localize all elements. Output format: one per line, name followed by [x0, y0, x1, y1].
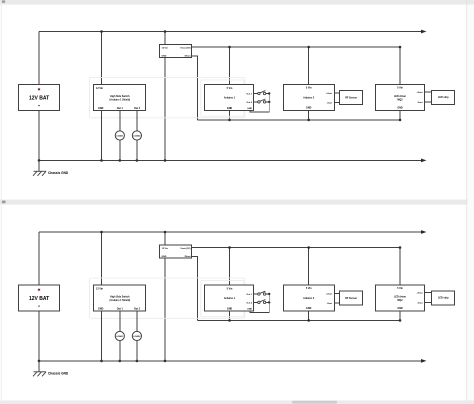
module U2 DC-DC converter: [160, 245, 192, 258]
wire switch1 left stub: [254, 293, 258, 295]
svg-text:12V BAT: 12V BAT: [29, 296, 49, 302]
svg-text:5 Vin: 5 Vin: [227, 288, 233, 291]
module U6 LED driver: [376, 285, 425, 311]
svg-text:+Vout: +Vout: [326, 292, 332, 295]
svg-text:Out 1: Out 1: [246, 92, 252, 95]
svg-text:MQ2: MQ2: [397, 299, 403, 302]
node GND sub-bus end: [399, 119, 402, 122]
svg-text:5 Vin: 5 Vin: [397, 87, 403, 90]
wire switch2 right stub: [266, 101, 269, 103]
node HSS-GND junction: [100, 159, 103, 162]
wire 12V top bus: [39, 31, 422, 33]
wire LEDdriver GND stub: [399, 311, 401, 320]
svg-text:RF Sensor: RF Sensor: [345, 96, 357, 99]
wire Arduino2 GND stub: [308, 312, 310, 321]
wire Arduino2 GND stub: [308, 111, 310, 120]
node battery-GND junction: [38, 360, 41, 363]
module U6 LED driver: [376, 85, 425, 111]
top toolbar icon: [2, 0, 5, 2]
module U7 LED strip: [432, 91, 455, 105]
wire ground stub: [38, 160, 40, 171]
svg-text:LED strip: LED strip: [438, 297, 449, 300]
wire switch2 right stub: [266, 301, 269, 303]
module U4 Arduino 2: [284, 285, 335, 311]
node switch1 out: [268, 92, 270, 94]
wire HSS Out2 upper: [136, 311, 138, 332]
svg-text:GND: GND: [397, 307, 403, 310]
frame Arduino1 group: [201, 80, 244, 116]
svg-text:-Vout: -Vout: [327, 101, 333, 104]
svg-text:12 Vin: 12 Vin: [162, 48, 169, 50]
module U3 Arduino 1: [205, 285, 254, 311]
wire Arduino1 5Vin: [229, 248, 231, 286]
wire LEDdriver GND stub: [399, 111, 401, 120]
middle divider icon: [2, 201, 6, 204]
wire battery negative: [38, 111, 40, 160]
svg-text:GND: GND: [306, 307, 312, 310]
node DCDC-GND junction: [164, 360, 167, 363]
node LOAD1-GND junction: [119, 159, 122, 162]
svg-text:Out 1: Out 1: [117, 308, 124, 311]
wire 5V bus: [192, 247, 400, 249]
svg-text:-Vout: -Vout: [417, 101, 423, 104]
wire battery positive: [38, 32, 40, 85]
wire Arduino2 5Vin: [308, 248, 310, 285]
node GND-Arduino1 junction: [228, 319, 231, 322]
wire HSS Out2 upper: [136, 110, 138, 130]
svg-text:5 Vin: 5 Vin: [306, 87, 312, 90]
wire chassis GND bus: [39, 159, 422, 161]
wire HSS Out1 upper: [119, 110, 121, 130]
arrow 12V bus end: [421, 230, 427, 234]
wire Arduino2 5Vin: [308, 47, 310, 84]
left page border: [0, 0, 3, 404]
svg-text:LED strip: LED strip: [438, 96, 449, 99]
node GND sub-bus end: [399, 319, 402, 322]
svg-text:GND: GND: [162, 56, 167, 58]
svg-text:(Arduino 1 Shield): (Arduino 1 Shield): [110, 299, 131, 302]
middle divider strip: [0, 200, 474, 205]
svg-text:Out 1: Out 1: [246, 293, 252, 296]
arrow GND bus end: [421, 159, 427, 163]
wire 5Vout elbow: [192, 56, 198, 120]
svg-text:Out 1: Out 1: [117, 107, 124, 110]
load LOAD1: [115, 331, 124, 340]
wire LOAD1 lower: [119, 341, 121, 361]
wire Arduino1 5Vin: [229, 47, 231, 85]
node 12V-HSS junction: [100, 30, 103, 33]
frame HSS group: [90, 278, 245, 318]
node 5V-Arduino2 junction: [307, 46, 310, 49]
ground chassis symbol: [33, 171, 46, 176]
arrow 12V bus end: [421, 30, 427, 34]
bottom scrollbar thumb: [292, 401, 337, 404]
node GND-Arduino2 junction: [307, 319, 310, 322]
node 5V-Arduino1 junction: [228, 46, 231, 49]
switch S1: [258, 91, 266, 95]
svg-text:Out 2: Out 2: [134, 107, 141, 110]
svg-text:Arduino 1: Arduino 1: [224, 97, 236, 100]
wire switch1 right stub: [266, 93, 269, 95]
svg-text:5 Vin: 5 Vin: [306, 287, 312, 290]
wire 12V top bus: [39, 231, 422, 233]
module U4 Arduino 2: [284, 85, 335, 111]
wire LOAD1 lower: [119, 140, 121, 160]
svg-text:Out 2: Out 2: [134, 308, 141, 311]
svg-text:Out 2: Out 2: [246, 301, 252, 304]
switch S2: [258, 300, 266, 304]
node LOAD2-GND junction: [136, 360, 139, 363]
node switch2 out: [268, 101, 270, 103]
node 12V-HSS junction: [100, 231, 103, 234]
svg-text:GND: GND: [306, 107, 312, 110]
node switch2 out: [268, 301, 270, 303]
svg-text:GND: GND: [98, 308, 104, 311]
svg-text:Vmot (5V): Vmot (5V): [180, 247, 190, 250]
wire LED strip upper: [425, 292, 432, 294]
svg-text:GND: GND: [162, 256, 167, 258]
svg-text:GND: GND: [98, 107, 104, 110]
module U1 High Side Switch: [94, 285, 146, 311]
node DCDC-GND junction: [164, 159, 167, 162]
battery B1 12V BAT: [19, 85, 60, 111]
svg-text:+Vout: +Vout: [417, 91, 423, 94]
svg-text:Arduino 2: Arduino 2: [303, 297, 315, 300]
schematic page 2: [19, 230, 455, 376]
wire LOAD2 lower: [136, 140, 138, 160]
wire ground stub: [38, 361, 40, 372]
wire DCDC 12Vin: [164, 232, 166, 245]
wire Arduino2-RF lower: [334, 302, 340, 304]
svg-text:GND: GND: [397, 107, 403, 110]
wire Arduino2-RF upper: [334, 292, 340, 294]
wire DCDC 12Vin: [164, 32, 166, 45]
wire switch return loop: [250, 94, 269, 112]
wire HSS GND down: [101, 110, 103, 160]
svg-text:Vmot (5V): Vmot (5V): [180, 47, 190, 50]
node 5V-Arduino2 junction: [307, 246, 310, 249]
svg-text:5 Vin: 5 Vin: [397, 287, 403, 290]
svg-text:MQ2: MQ2: [397, 98, 403, 101]
svg-text:5Vout: 5Vout: [185, 255, 191, 258]
wire battery negative: [38, 312, 40, 361]
wire HSS 12Vin: [101, 232, 103, 285]
svg-text:12 Vin: 12 Vin: [96, 87, 104, 90]
svg-text:12 Vin: 12 Vin: [96, 288, 104, 291]
bottom scrollbar track: [0, 400, 474, 404]
node battery-GND junction: [38, 159, 41, 162]
frame HSS group: [90, 77, 245, 117]
schematic page 1: [19, 30, 455, 176]
right page border: [466, 0, 467, 404]
module U2 DC-DC converter: [160, 45, 192, 58]
svg-text:-Vout: -Vout: [327, 302, 333, 305]
module U1 High Side Switch: [94, 85, 146, 111]
node 5V-LEDdriver junction: [399, 46, 402, 49]
load LOAD2: [132, 331, 141, 340]
wire Arduino2-RF upper: [334, 92, 340, 94]
wire chassis GND bus: [39, 360, 422, 362]
node 5V-LEDdriver junction: [399, 246, 402, 249]
wire GND sub-bus: [198, 319, 401, 321]
load LOAD1: [115, 131, 124, 140]
wire 5Vout elbow: [192, 257, 198, 321]
svg-text:5Vout: 5Vout: [185, 55, 191, 58]
node LOAD2-GND junction: [136, 159, 139, 162]
node HSS-GND junction: [100, 360, 103, 363]
switch S1: [258, 291, 266, 295]
svg-text:Arduino 1: Arduino 1: [224, 297, 236, 300]
svg-text:12 Vin: 12 Vin: [162, 248, 169, 250]
module U7 LED strip: [432, 291, 455, 305]
node LOAD1-GND junction: [119, 360, 122, 363]
node 12V-DCDC junction: [164, 30, 167, 33]
battery B1 12V BAT: [19, 285, 60, 311]
wire switch2 left stub: [254, 101, 258, 103]
wire switch1 left stub: [254, 93, 258, 95]
svg-text:GND: GND: [247, 308, 252, 310]
wire LED strip lower: [425, 302, 432, 304]
wire battery positive: [38, 232, 40, 285]
node 12V-DCDC junction: [164, 231, 167, 234]
module U5 RF Sensor: [340, 291, 363, 305]
frame Arduino1 group: [201, 280, 244, 316]
svg-text:GND: GND: [227, 307, 233, 310]
wire LOAD2 lower: [136, 341, 138, 361]
wire Arduino2-RF lower: [334, 101, 340, 103]
module U5 RF Sensor: [340, 91, 363, 105]
svg-text:LOAD1: LOAD1: [116, 335, 124, 338]
svg-text:LOAD1: LOAD1: [116, 135, 124, 138]
node GND-Arduino1 junction: [228, 119, 231, 122]
ground chassis symbol: [33, 372, 46, 377]
svg-text:+Vout: +Vout: [417, 292, 423, 295]
wire Arduino1 GND stub: [229, 311, 231, 320]
svg-text:12V BAT: 12V BAT: [29, 95, 49, 101]
node GND-Arduino2 junction: [307, 119, 310, 122]
node 5V-Arduino1 junction: [228, 246, 231, 249]
svg-text:Chassis GND: Chassis GND: [48, 171, 69, 175]
load LOAD2: [132, 131, 141, 140]
arrow GND bus end: [421, 359, 427, 363]
wire LED strip upper: [425, 91, 432, 93]
wire switch2 left stub: [254, 301, 258, 303]
wire HSS 12Vin: [101, 32, 103, 85]
top toolbar strip: [0, 0, 474, 5]
wire LED strip lower: [425, 101, 432, 103]
svg-text:(Arduino 1 Shield): (Arduino 1 Shield): [110, 99, 131, 102]
wire GND sub-bus: [198, 119, 401, 121]
svg-text:Chassis GND: Chassis GND: [48, 372, 69, 376]
wire switch return loop: [250, 294, 269, 312]
right margin: [467, 5, 474, 404]
svg-text:+Vout: +Vout: [326, 92, 332, 95]
svg-text:5 Vin: 5 Vin: [227, 87, 233, 90]
wire Arduino1 GND stub: [229, 111, 231, 120]
svg-text:LOAD2: LOAD2: [133, 335, 141, 338]
switch S2: [258, 99, 266, 103]
wire DCDC GND: [164, 259, 166, 361]
svg-text:-Vout: -Vout: [417, 302, 423, 305]
module U3 Arduino 1: [205, 85, 254, 111]
wire LEDdriver 5Vin: [399, 248, 401, 285]
svg-text:RF Sensor: RF Sensor: [345, 297, 357, 300]
svg-text:LOAD2: LOAD2: [133, 135, 141, 138]
svg-text:Arduino 2: Arduino 2: [303, 96, 315, 99]
wire switch1 right stub: [266, 293, 269, 295]
wire 5V bus: [192, 46, 400, 48]
node switch1 out: [268, 293, 270, 295]
wire LEDdriver 5Vin: [399, 47, 401, 84]
svg-text:Out 2: Out 2: [246, 101, 252, 104]
svg-text:GND: GND: [247, 108, 252, 110]
wire DCDC GND: [164, 58, 166, 160]
svg-text:GND: GND: [227, 107, 233, 110]
wire HSS Out1 upper: [119, 311, 121, 332]
wire HSS GND down: [101, 311, 103, 361]
